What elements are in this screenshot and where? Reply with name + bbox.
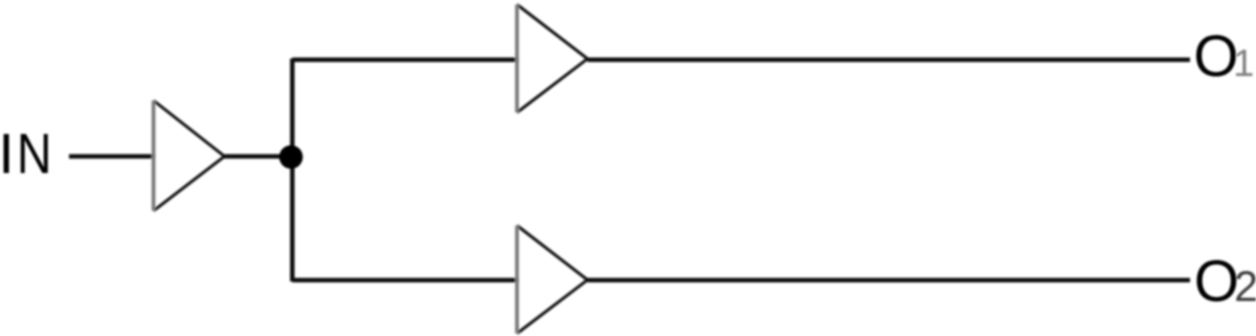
- wire U2 output to O1: [588, 58, 1191, 63]
- node junction dot: [279, 145, 303, 169]
- buffer U2 (top buffer): [517, 5, 588, 113]
- wire top branch to U2: [292, 58, 519, 63]
- wire vertical fanout: [290, 59, 295, 282]
- buffer U3 (bottom buffer): [517, 226, 588, 334]
- wire input lead: [69, 154, 156, 159]
- svg-text:N: N: [17, 122, 52, 186]
- wire U3 output to O2: [588, 278, 1191, 283]
- wire bottom branch to U3: [292, 278, 519, 283]
- buffer U1 (input buffer): [154, 101, 225, 211]
- svg-text:I: I: [0, 122, 14, 186]
- wire U1 output to junction: [225, 154, 293, 159]
